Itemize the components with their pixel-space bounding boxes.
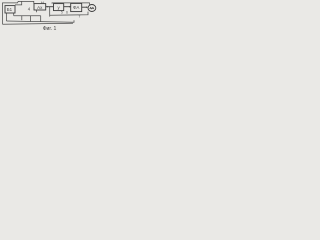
wire V5 feedback junction down (49, 7, 51, 17)
wire top rail left (3, 1, 34, 24)
svg-text:ФА: ФА (73, 5, 79, 10)
wire ФА to generator (82, 6, 88, 8)
wire V1 left box bottom to bottom rail (6, 13, 8, 21)
wire top rail right (52, 3, 90, 5)
svg-text:Ы: Ы (41, 0, 45, 5)
wire bottom rail (7, 20, 75, 22)
generator circle (88, 5, 96, 12)
svg-text:5: 5 (61, 11, 63, 15)
wire bus B1 (14, 15, 41, 17)
wire V2 left box bottom to bus B1 (13, 13, 15, 16)
wire lower rule (3, 23, 74, 24)
svg-text:Б1: Б1 (7, 7, 13, 12)
wire V3 junction (30, 16, 32, 22)
svg-text:Фиг. 1: Фиг. 1 (43, 26, 57, 32)
arrow into generator (86, 6, 88, 8)
arrow into ФА (69, 6, 71, 8)
wire stub from top rail down to block Б1 top (15, 1, 22, 5)
svg-text:6: 6 (66, 11, 68, 15)
wire V6 drop at x21.8 (21, 16, 23, 21)
wire stub below block Ах (36, 10, 38, 12)
wire bus B2 feedback (50, 12, 88, 16)
wire У to ФА (64, 6, 71, 8)
arrow into У (47, 6, 49, 8)
svg-text:7: 7 (78, 14, 80, 19)
block У (54, 4, 64, 11)
block ФА (71, 3, 82, 11)
block Б1 (5, 6, 15, 13)
wire V4 right closure (40, 16, 42, 22)
wire Ах to У (46, 6, 54, 8)
svg-text:Ах: Ах (37, 5, 43, 10)
generator inner mark (90, 7, 94, 8)
block Ах (34, 4, 46, 10)
